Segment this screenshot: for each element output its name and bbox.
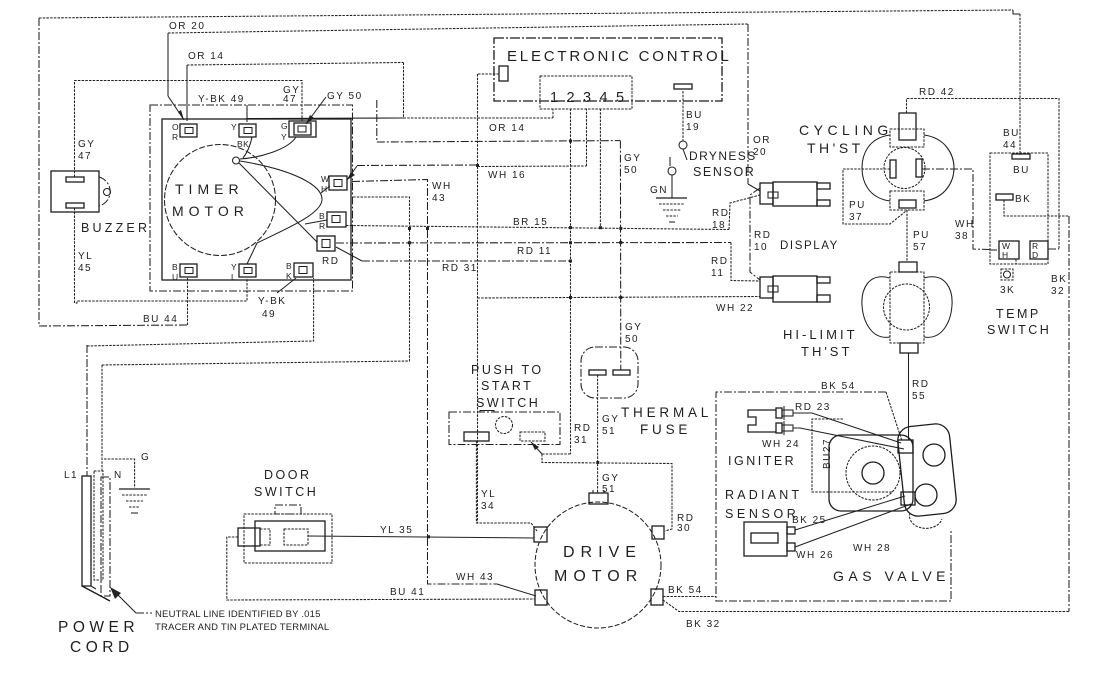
svg-text:GY: GY [625,322,642,333]
wire GY51 fuse to motor [597,375,599,493]
motor left-top terminal [534,527,547,542]
push start right terminal [520,432,545,441]
SECTION: control [478,38,757,222]
svg-text:BU: BU [1013,165,1030,176]
display top connector prongs [817,183,830,189]
svg-text:SWITCH: SWITCH [476,396,540,410]
igniter top prong [776,408,782,418]
SECTION: powercord [58,345,329,656]
timer motor circle [165,145,276,256]
svg-text:MOTOR: MOTOR [172,203,249,219]
buzzer body [51,171,99,212]
wire WH43 from timer [352,180,497,585]
timer inner solid box [162,119,351,280]
svg-text:44: 44 [1003,140,1017,151]
terminal G-Y [289,121,316,137]
wire G to ground [104,459,135,488]
SECTION: display [750,182,839,302]
display top connector left piece [760,183,773,204]
wire GY47 buzzer to timer GY terminal [75,81,303,178]
svg-text:BK: BK [237,139,249,149]
arrow into right terminal [531,442,542,454]
wire stub below WH terminal [1016,259,1048,264]
svg-text:DRIVE: DRIVE [563,544,642,561]
igniter bottom prong [776,423,782,433]
neutral arrow [113,590,136,613]
svg-text:3K: 3K [1000,285,1015,296]
svg-text:SWITCH: SWITCH [987,323,1051,337]
svg-text:RD 23: RD 23 [795,402,831,413]
wire GY50 drop to thermal fuse [619,141,621,370]
svg-text:H: H [321,184,328,194]
radiant sensor box [744,522,787,556]
svg-text:B: B [172,262,178,272]
svg-text:34: 34 [481,501,495,512]
control left pin [499,66,508,81]
svg-text:GY: GY [602,414,619,425]
wire YL34 from left terminal [476,441,537,531]
svg-text:RD 11: RD 11 [517,246,552,257]
terminal B-R [327,212,346,227]
svg-text:49: 49 [262,309,276,320]
svg-text:BK 32: BK 32 [686,619,721,630]
wire N drop [101,365,103,471]
terminal Y-L [239,264,256,277]
ground symbol [656,197,687,199]
svg-text:RD: RD [711,256,728,267]
svg-text:RD 31: RD 31 [442,263,478,274]
wire to ground [671,175,673,198]
wire x570 vertical control pin2 to push-start [570,109,572,455]
temp switch lower terminal circle [1001,269,1013,280]
control terminal strip box [540,76,632,109]
wire RD31 horizontal [362,260,571,262]
timer cam curve from GY terminal [240,137,296,159]
svg-text:SENSOR: SENSOR [725,507,799,521]
SECTION: thermostats [783,87,1059,440]
push to start switch box [449,412,560,445]
svg-text:CYCLING: CYCLING [799,122,893,138]
wire WH26 diagonal [795,504,911,547]
wire RD18 riser and diagonal to display [729,195,760,230]
svg-text:Y-BK 49: Y-BK 49 [198,94,245,105]
wire BK54 diagonal to valve terminal [886,392,902,441]
svg-text:OR 20: OR 20 [169,21,205,32]
radiant sensor slot [751,533,778,543]
svg-text:BU 44: BU 44 [143,314,178,325]
wire PU37 loop [843,169,906,224]
svg-text:B: B [286,261,292,271]
svg-text:BK 54: BK 54 [668,585,703,596]
svg-text:BK 54: BK 54 [821,381,856,392]
SECTION: gasvalve [716,381,958,601]
svg-text:YL: YL [481,489,496,500]
wire BU44 left border vertical [38,18,40,326]
svg-text:WH 22: WH 22 [716,303,754,314]
svg-text:WH 24: WH 24 [762,439,800,450]
timer cam link to WH [321,186,330,193]
svg-text:Y: Y [281,132,287,142]
wire WH43 diagonal into motor [497,584,536,596]
svg-text:WH 28: WH 28 [853,543,891,554]
svg-text:RD: RD [912,379,929,390]
power cord prong L1 [82,476,91,586]
svg-text:BK 25: BK 25 [792,515,827,526]
wire from YBK drop right to pin1 [247,117,404,120]
SECTION: buzzer [51,171,150,235]
svg-text:RD: RD [574,423,591,434]
gas valve body [829,435,913,511]
push start button circle [496,417,513,434]
svg-text:BK: BK [1051,274,1067,285]
wire L1 drop [86,345,88,476]
svg-text:57: 57 [913,242,927,253]
svg-text:RD: RD [322,256,339,267]
push start left terminal [464,432,489,441]
svg-text:TRACER AND TIN PLATED TERMINAL: TRACER AND TIN PLATED TERMINAL [155,622,329,633]
SECTION: fusemotor [534,347,1069,630]
svg-text:TEMP: TEMP [996,307,1041,321]
svg-text:OR: OR [753,135,771,146]
svg-text:GY 50: GY 50 [327,91,363,102]
flange top circle [923,444,945,466]
control right slot terminal [674,84,692,89]
door switch top tab [275,505,301,514]
svg-text:ELECTRONIC CONTROL: ELECTRONIC CONTROL [507,48,732,65]
svg-text:FUSE: FUSE [640,422,691,437]
svg-text:11: 11 [711,268,724,279]
svg-text:50: 50 [624,165,638,176]
wire BU44 riser to timer BU [187,278,189,325]
svg-text:R: R [172,132,179,142]
svg-text:32: 32 [1051,286,1065,297]
svg-text:OR 14: OR 14 [489,123,525,134]
svg-text:MOTOR: MOTOR [554,568,643,585]
hi-limit circle [884,284,930,330]
svg-text:BU 41: BU 41 [390,587,425,598]
hi-limit bottom terminal [900,343,918,353]
svg-text:START: START [481,379,533,393]
svg-text:TH'ST: TH'ST [807,140,864,156]
wire OR20 top [168,24,748,33]
wire BK from temp switch [1004,200,1069,216]
svg-text:BUZZER: BUZZER [81,221,150,235]
valve right flange [896,423,957,518]
svg-text:18: 18 [712,220,726,231]
svg-text:47: 47 [283,94,297,105]
terminal B-U [180,264,197,277]
svg-text:G: G [141,452,150,463]
svg-text:NEUTRAL LINE IDENTIFIED BY .01: NEUTRAL LINE IDENTIFIED BY .015 [155,609,321,620]
wire RD10 between connectors [750,188,760,280]
svg-text:BU: BU [1003,128,1020,139]
svg-text:TH'ST: TH'ST [801,344,852,359]
svg-text:51: 51 [602,426,616,437]
svg-text:WH: WH [955,219,975,230]
timer outer dashed box [150,105,353,291]
hi-limit body wings [862,277,952,338]
flange bottom tab [910,513,942,528]
svg-text:BU27: BU27 [822,438,833,469]
valve top-left terminal [898,440,913,453]
igniter bracket [748,410,776,432]
wire OR20 arrow into timer OR terminal [168,96,184,120]
svg-text:RD 42: RD 42 [919,87,955,98]
wire GY50 arrow diagonal into GY terminal [306,97,326,124]
svg-text:WH 16: WH 16 [488,170,526,181]
timer cam tail to YL [247,243,257,264]
wire OR14 mid drop [403,63,405,118]
svg-text:WH: WH [432,181,452,192]
svg-text:37: 37 [849,212,863,223]
svg-text:YL: YL [78,251,93,262]
wire RD11 line from timer RD terminal [336,242,731,245]
cycling contact slots [890,160,896,178]
svg-text:H: H [1002,250,1009,260]
wire WH16 to control pin3 [478,165,587,168]
wire L1 bus to timer BK terminal [87,278,314,346]
wire BK32 right vertical [1068,216,1070,612]
svg-text:43: 43 [432,193,446,204]
svg-text:SENSOR: SENSOR [693,165,755,179]
buzzer top slot [66,177,84,182]
dryness sensor top electrode [679,141,687,149]
wire OR20 right drop to display [747,24,749,184]
wire WH22 branch [478,297,761,299]
buzzer bottom slot [66,203,84,208]
svg-text:SWITCH: SWITCH [254,485,318,499]
electronic control box [494,38,722,101]
svg-text:GN: GN [650,185,668,196]
junction dots [569,140,572,143]
display top connector contact [768,192,778,198]
buzzer small circle [104,189,111,196]
display bottom connector prongs [817,277,830,283]
svg-text:W: W [321,174,330,184]
svg-text:1 2 3 4 5: 1 2 3 4 5 [550,90,626,106]
motor top terminal [589,493,608,504]
svg-text:HI-LIMIT: HI-LIMIT [783,327,858,342]
wire BK54 stub [663,596,716,598]
power cord prong tracer [101,477,110,596]
svg-text:19: 19 [686,122,700,133]
wire OR14 lower run to control pin1 [404,117,554,119]
buzzer bump [99,177,110,206]
wire YBK49 diagonal from BK terminal [277,278,296,293]
hi-limit dashed bracket [890,272,924,343]
svg-text:B: B [319,211,325,221]
SECTION: pushstart [449,363,694,534]
temp switch box [990,153,1048,264]
svg-text:POWER: POWER [58,619,139,636]
wire control pin4 drop [599,109,601,228]
wire WH24 [793,428,904,449]
thermal fuse left slot [589,370,606,375]
gas valve coil circle [846,446,900,500]
wire BU41 from door switch [227,537,535,600]
wire PU57 [906,210,908,262]
wire RD11 drop and entry to bottom display connector [731,243,760,282]
thermal fuse body [581,347,638,398]
terminal W-H [329,176,347,190]
svg-text:CORD: CORD [70,639,134,656]
svg-text:L: L [231,272,236,282]
svg-text:30: 30 [677,523,691,534]
terminal Y-BK [239,124,256,137]
svg-text:U: U [172,272,179,282]
svg-text:GY: GY [624,153,641,164]
svg-text:D: D [1032,250,1039,260]
cycling thermostat top terminal [899,113,916,140]
svg-text:BK: BK [1015,194,1031,205]
SECTION: timer [150,105,353,291]
door switch inner box [255,521,325,551]
wire WH white bus: diagonal from timer WH terminal [347,166,357,180]
timer cam straight to RD [239,163,317,242]
door switch left connector [238,528,260,546]
svg-text:RADIANT: RADIANT [725,488,802,502]
svg-text:31: 31 [574,435,588,446]
ground symbol [119,488,150,490]
motor right-top terminal [652,526,664,539]
display top connector body [773,182,817,206]
terminal B-K [294,263,313,277]
svg-text:WH 26: WH 26 [796,550,834,561]
timer cam link to BR [305,220,327,224]
timer cam pivot circle [233,157,240,164]
wire YBK49 along timer dashed box top handled in timer; drop at x247 [246,105,248,122]
svg-text:IGNITER: IGNITER [728,454,796,468]
wire BU44 top right elbow [1013,10,1020,14]
wire WH long vertical x477.5 [477,74,479,523]
valve bottom-left terminal [901,492,915,505]
svg-text:GY: GY [602,473,619,484]
hi-limit top terminal [899,262,917,272]
timer cam curve from YBK terminal [243,137,252,158]
wire OR14 top horizontal [187,63,404,66]
wire from left pin [478,73,500,75]
svg-text:N: N [114,470,123,481]
svg-text:TIMER: TIMER [175,181,244,197]
wire RD42 [907,99,1060,250]
cycling thermostat lens body [862,135,954,201]
SECTION: tempswitch [987,128,1069,612]
wire BK32 bottom run [663,600,1069,612]
wire YL45 buzzer to timer YL [75,208,248,303]
svg-text:RD: RD [754,230,771,241]
svg-text:R: R [319,221,326,231]
display bottom connector left piece [760,277,773,298]
cycling thermostat circle [884,148,925,189]
wire RD23 [793,413,901,443]
radiant sensor terminals [787,527,795,534]
power cord slant bottom [82,586,110,601]
svg-text:RD: RD [712,208,729,219]
door switch outer box [244,514,332,563]
svg-text:PUSH TO: PUSH TO [471,363,544,377]
display bottom connector contact [768,286,778,292]
svg-text:GY: GY [78,139,95,150]
svg-text:PU: PU [913,230,930,241]
cycling thermostat top bracket [890,129,924,147]
dryness sensor bottom electrode [668,167,676,175]
motor left-bottom terminal [535,590,547,605]
wire BU44 top border [39,10,1013,18]
wire BR15/RD18 line from timer BR terminal [346,226,729,230]
svg-text:DISPLAY: DISPLAY [780,240,839,252]
temp switch BU terminal [1012,154,1030,159]
drive motor circle [535,502,661,628]
temp switch RD terminal [1030,241,1048,259]
wire BU44 drop to temp switch [1019,14,1021,155]
thermal fuse right slot [613,370,630,375]
terminal RD [317,236,335,251]
display bottom connector body [773,276,817,302]
wire BU19 dryness sensor [682,91,684,141]
svg-text:BU: BU [686,110,703,121]
svg-text:Y-BK: Y-BK [258,296,286,307]
svg-text:YL 35: YL 35 [380,525,413,536]
svg-text:WH 43: WH 43 [456,572,494,583]
valve coil dotted box [812,419,892,492]
SECTION: doorswitch [227,468,535,600]
wire OR20 left drop [167,33,169,96]
wire YL35 to motor [308,536,534,538]
wire OR14 drop into OR terminal [186,65,188,121]
svg-text:38: 38 [955,231,969,242]
svg-text:OR 14: OR 14 [188,51,224,62]
wire RD terminal to RD42 vertical [1048,248,1059,250]
wire WH bus horizontal y165 [357,164,478,167]
power cord prong N [94,471,103,580]
wire N bus [102,197,410,365]
motor right-bottom terminal [651,589,663,605]
door switch right contact [284,529,308,545]
gas valve dash-dot enclosure [716,392,951,601]
svg-text:Y: Y [231,122,237,132]
svg-text:55: 55 [912,391,926,402]
cycling bottom bracket [890,191,924,210]
wire WH38 [922,169,989,250]
svg-text:GAS VALVE: GAS VALVE [833,568,950,584]
svg-text:Y: Y [231,262,237,272]
wire BK25 diagonal [795,496,905,530]
temp switch BK terminal [996,194,1013,200]
svg-text:O: O [172,122,179,132]
SECTION: buses [39,10,1020,596]
svg-text:DRYNESS: DRYNESS [689,149,757,163]
wire WH into temp switch [989,249,999,251]
svg-text:L1: L1 [64,470,78,481]
neutral note connector [136,612,152,614]
wire RD55 [908,353,910,440]
wire RD31 elbow into right terminal [542,453,571,455]
svg-text:PU: PU [849,200,866,211]
timer cam teardrop loop [240,161,322,243]
wire BU44 bottom segment [39,325,188,326]
wire RD31 diagonal from timer RD terminal [336,247,362,261]
wire GY50 elbow down [377,100,621,142]
svg-text:DOOR: DOOR [264,468,312,482]
wire to RD30 motor feed [542,454,672,531]
svg-text:45: 45 [78,263,92,274]
flange bottom circle [915,484,937,506]
terminal O-R [180,124,197,137]
temp switch WH terminal [999,241,1019,259]
svg-text:47: 47 [78,151,92,162]
svg-text:THERMAL: THERMAL [621,405,712,420]
svg-text:K: K [286,271,292,281]
